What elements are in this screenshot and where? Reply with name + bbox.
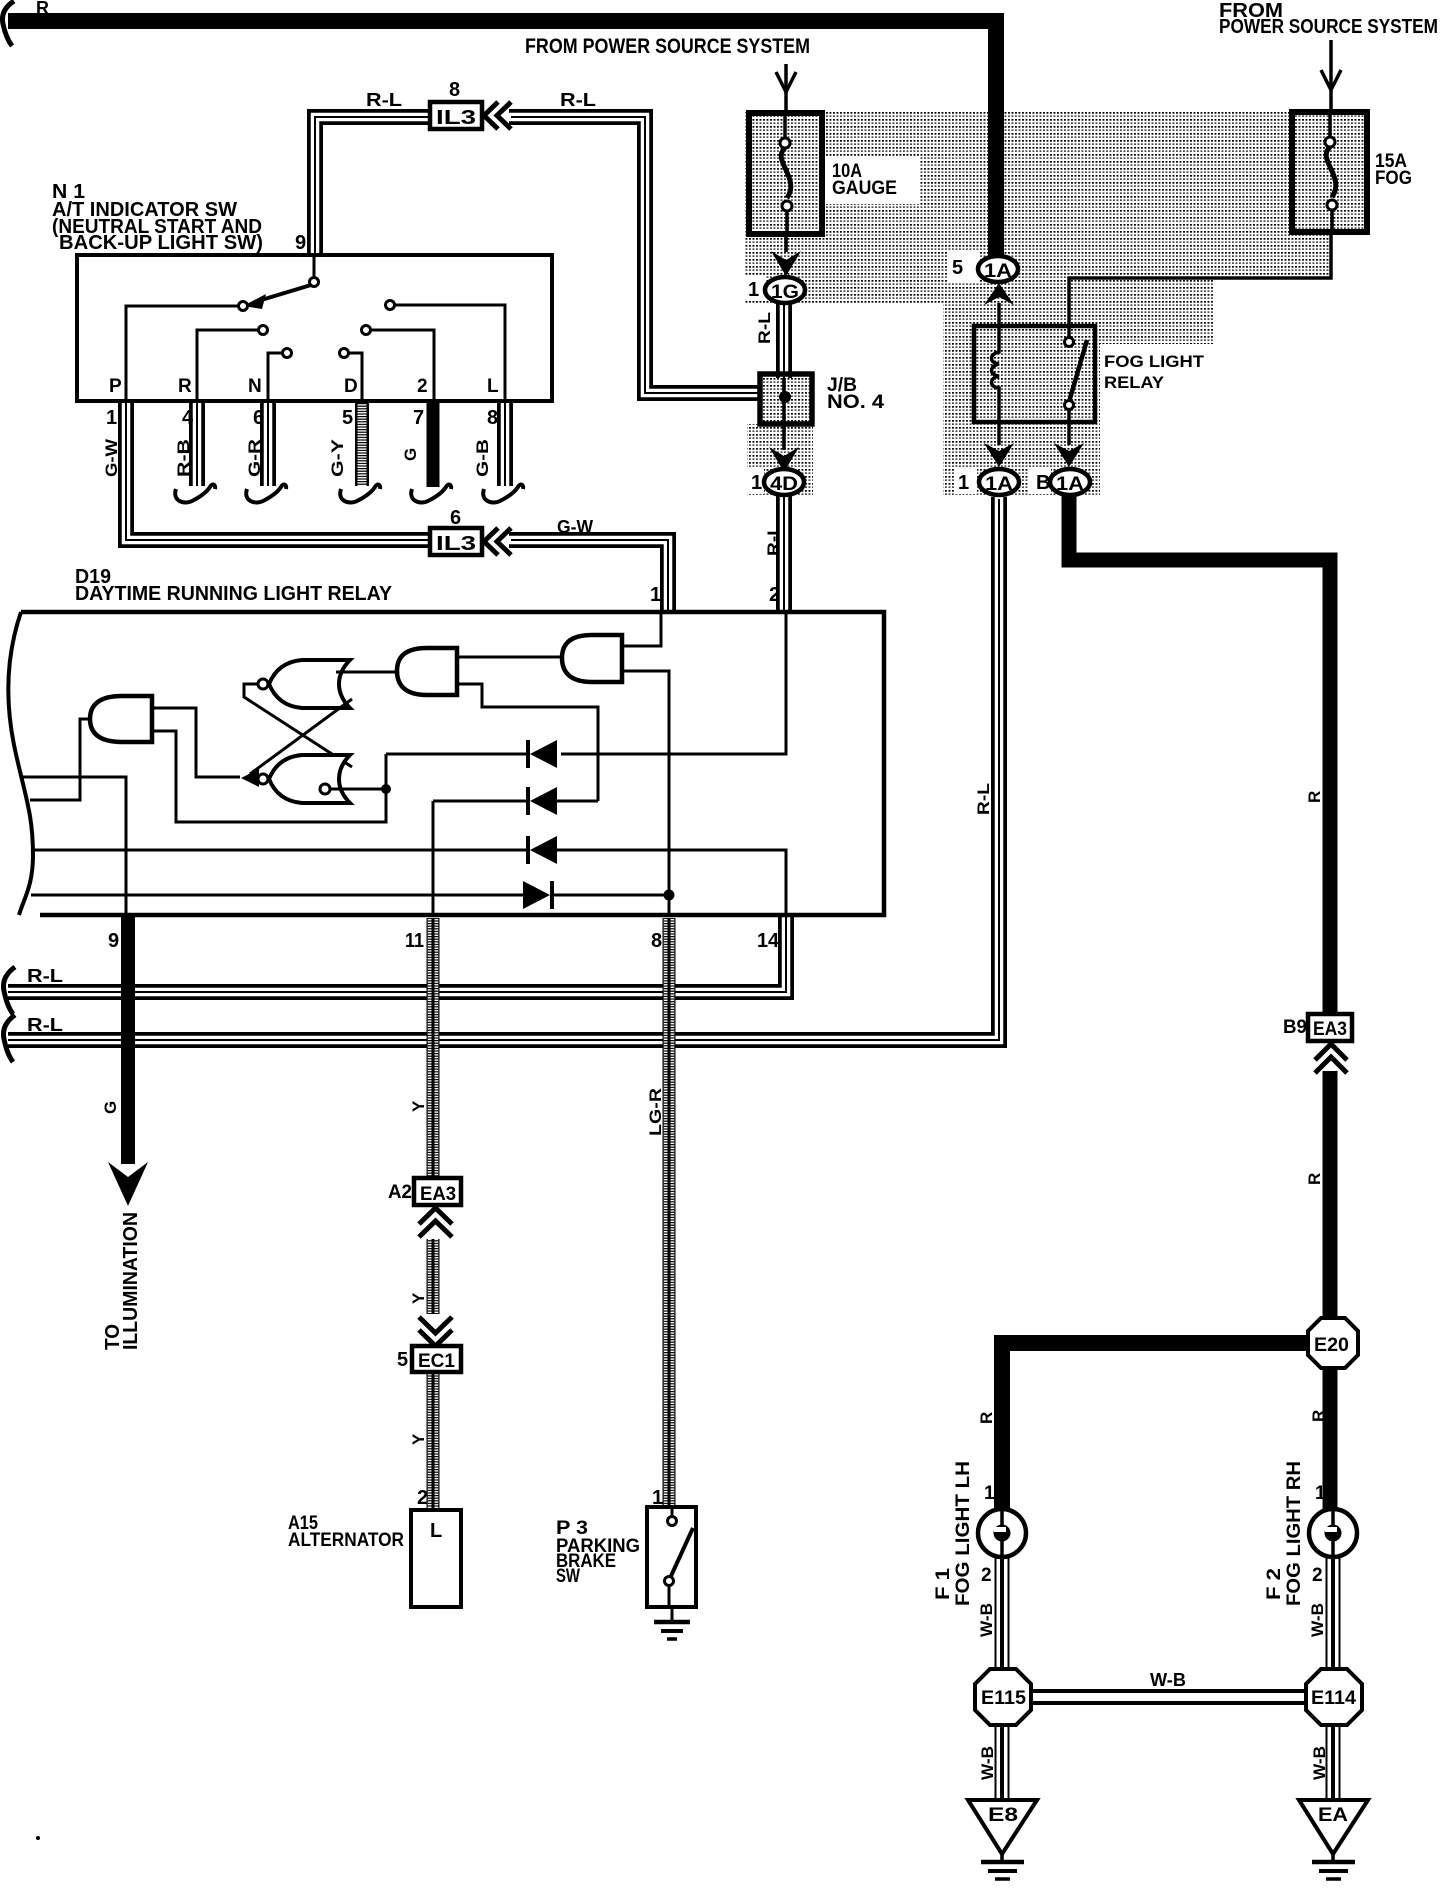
svg-text:8: 8 — [487, 407, 498, 429]
connector A2 EA3 — [414, 1178, 461, 1205]
svg-text:2: 2 — [981, 1565, 992, 1586]
svg-text:N: N — [248, 376, 262, 397]
fuse 15A FOG — [1292, 112, 1367, 232]
relay switch blade — [1069, 340, 1087, 402]
connector 5 EC1 — [412, 1346, 461, 1372]
A/T sw pivot — [310, 278, 319, 287]
svg-text:R-L: R-L — [366, 90, 402, 110]
wire diode row 3 from left edge — [33, 849, 526, 852]
arrow into 10A gauge fuse — [776, 64, 796, 113]
NOR-B tip bubble — [258, 774, 268, 784]
svg-text:LG-R: LG-R — [646, 1088, 665, 1136]
continuation bracket on R-L run 2 — [3, 1015, 15, 1062]
parking brake sw contact top — [671, 1509, 674, 1516]
svg-text:G-Y: G-Y — [328, 438, 347, 477]
gate NOR-T — [269, 660, 350, 708]
wire NOR-B cross-couple to NOR-T — [250, 699, 352, 774]
fog light RH bulb — [1309, 1509, 1357, 1557]
relay box FOG LIGHT RELAY — [974, 326, 1095, 422]
wire contact P to pin 1 — [126, 306, 238, 399]
svg-text:5: 5 — [342, 407, 353, 429]
ground triangle E8 — [968, 1800, 1037, 1854]
white patch behind connector label 1 (1A) — [955, 468, 977, 494]
junction connector E114 — [1306, 1669, 1362, 1725]
svg-text:G-B: G-B — [473, 439, 492, 477]
wire diode D4 to pin 8 junction — [552, 894, 669, 897]
wire W-B fog light LH to E115 — [995, 1556, 1010, 1669]
svg-text:L: L — [430, 1520, 442, 1542]
wire Y hatched D19 pin 11 to A2 EA3 — [427, 918, 440, 1178]
svg-text:L: L — [487, 376, 499, 397]
svg-text:G: G — [401, 448, 420, 461]
wire R-L from power source to IL3(8) via J/B No.4 — [509, 117, 761, 393]
chevrons up into A2 EA3 — [419, 1208, 452, 1237]
diode D1 — [528, 740, 557, 768]
diode D2 — [528, 787, 557, 815]
svg-text:P: P — [109, 376, 122, 397]
wire R-L connector 1G to J/B No.4 — [776, 302, 792, 378]
svg-text:W-B: W-B — [977, 1603, 996, 1637]
svg-text:W-B: W-B — [978, 1746, 997, 1780]
gate AND-R — [562, 635, 622, 682]
svg-text:R-B: R-B — [174, 439, 193, 477]
relay coil — [992, 330, 1000, 422]
A/T sw pin 9 lead — [313, 257, 316, 277]
wire 15A fuse to fog light relay contact — [1069, 232, 1331, 338]
connector IL3 pin 8 — [430, 102, 482, 129]
shaded power-feed region (left band) — [745, 112, 943, 304]
svg-text:FOG LIGHT: FOG LIGHT — [1104, 352, 1205, 371]
A/T sw contact P — [239, 302, 248, 311]
svg-text:RELAY: RELAY — [1104, 373, 1165, 392]
wire W-B E114 to ground EA — [1326, 1725, 1341, 1800]
svg-text:W-B: W-B — [1308, 1603, 1327, 1637]
arrow into connector 4D — [769, 447, 799, 472]
wire Y hatched EC1 to alternator pin 2 — [427, 1371, 440, 1510]
wire diode D1 to NOR-B output node — [386, 753, 526, 756]
parking brake sw contact bottom — [665, 1577, 674, 1586]
svg-text:R-L: R-L — [974, 783, 993, 815]
svg-text:R: R — [36, 0, 49, 18]
svg-text:R: R — [178, 376, 192, 397]
arrow up into connector 1A pin 5 — [984, 283, 1014, 305]
hook end wire pin 7 — [411, 485, 451, 503]
white patch behind connector label 1 (1G) — [743, 275, 765, 301]
wire G-B A/T sw pin 8 — [497, 401, 513, 486]
wire contact R to pin 4 — [197, 330, 258, 399]
svg-text:EA3: EA3 — [1313, 1019, 1347, 1040]
svg-text:G-W: G-W — [557, 517, 593, 537]
relay switch contact top — [1065, 338, 1074, 347]
wire NOR-T output cross-couple to NOR-B — [244, 684, 352, 767]
wire diode D2 to row 1 — [557, 800, 598, 803]
wire AND-R input top from pin 1 — [624, 612, 661, 646]
wire AND-L output to left edge — [30, 719, 90, 800]
chevrons down into EC1 — [419, 1317, 452, 1346]
wire relay to arrows below — [999, 409, 1069, 445]
D19 relay box outline — [21, 612, 884, 915]
svg-text:R: R — [1305, 1173, 1324, 1185]
chevrons up into B9 EA3 — [1315, 1044, 1347, 1073]
wire R thick power feed (top) — [8, 21, 996, 256]
svg-text:R-L: R-L — [27, 966, 63, 986]
wire G-W from A/T indicator sw pin 1 to IL3(6) — [126, 401, 431, 540]
connector 4D — [764, 469, 804, 495]
arrow into connector 1A pin B — [1054, 443, 1084, 467]
parking brake sw lead to ground — [669, 1586, 672, 1621]
wire G-W from IL3(6) to D19 pin 1 — [509, 540, 668, 612]
wire R thick E20 to fog light LH — [1002, 1343, 1306, 1510]
ground symbol EA — [1312, 1850, 1355, 1879]
svg-text:FOG LIGHT LH: FOG LIGHT LH — [953, 1461, 974, 1606]
svg-text:DAYTIME RUNNING LIGHT RELAY: DAYTIME RUNNING LIGHT RELAY — [75, 583, 393, 605]
svg-text:4D: 4D — [770, 474, 798, 495]
gate AND-L — [90, 696, 152, 742]
junction block J/B No.4 — [760, 374, 812, 424]
wire 1A pin5 to relay coil — [997, 303, 1001, 330]
A/T sw contact N — [283, 349, 292, 358]
svg-text:B9: B9 — [1283, 1017, 1307, 1038]
A/T indicator switch box N1 — [77, 255, 552, 401]
svg-text:1: 1 — [650, 584, 661, 606]
shaded patch around connector 4D — [747, 424, 813, 495]
svg-text:G-W: G-W — [102, 438, 121, 477]
wire NOR-B output to junction — [330, 788, 386, 791]
wire AND-L input bottom — [154, 731, 386, 822]
arrow G wire to illumination — [108, 1162, 148, 1206]
NOR-T output bubble — [258, 679, 268, 689]
svg-text:D: D — [344, 376, 358, 397]
svg-text:6: 6 — [450, 507, 461, 529]
ground symbol parking brake — [654, 1622, 690, 1639]
wire diode D3 to pin 14 — [557, 850, 786, 916]
wire R thick E20 to fog light RH — [1323, 1367, 1338, 1510]
svg-text:1: 1 — [751, 472, 762, 494]
wire AND-R input bottom to pin 8 — [624, 671, 669, 916]
wire LG-R hatched D19 pin 8 to parking brake sw — [663, 918, 676, 1507]
ground triangle EA — [1299, 1800, 1368, 1854]
connector 1A pin 1 — [979, 469, 1019, 495]
A/T sw contact R — [259, 326, 268, 335]
junction dot in J/B No.4 — [779, 391, 791, 403]
hook end wire pin 4 — [175, 485, 215, 503]
wire R thick B9 EA3 to junction E20 — [1323, 1071, 1338, 1319]
svg-text:2: 2 — [1312, 1565, 1323, 1586]
wire Y hatched EA3 to EC1 — [427, 1239, 440, 1314]
alternator A15 box — [411, 1510, 461, 1607]
wire below 10A fuse — [784, 234, 788, 252]
shaded region around fog light relay — [943, 278, 1100, 497]
wire R-L run from left edge to connector 1A pin 1 — [8, 497, 999, 1040]
wire G thick A/T sw pin 7 — [427, 401, 440, 487]
svg-text:7: 7 — [413, 407, 424, 429]
arrow into 15A fog fuse — [1321, 40, 1341, 112]
svg-text:GAUGE: GAUGE — [832, 178, 897, 199]
parking brake sw blade — [671, 1528, 693, 1576]
svg-text:14: 14 — [757, 930, 780, 952]
junction dot NOR-B output — [381, 784, 391, 794]
relay switch contact bottom — [1065, 401, 1074, 410]
wire thin through J/B No.4 to 4D arrow — [782, 378, 786, 450]
svg-text:E114: E114 — [1311, 1688, 1356, 1709]
shaded step right of relay — [1100, 278, 1213, 344]
shaded power-feed region (right band) — [943, 112, 1292, 278]
wire NOR-T input from AND-M — [336, 671, 397, 674]
gate NOR-B — [269, 755, 350, 803]
svg-text:2: 2 — [417, 1487, 428, 1509]
svg-text:G: G — [101, 1101, 120, 1114]
svg-text:1A: 1A — [984, 261, 1012, 282]
A/T sw contact L — [386, 301, 395, 310]
svg-text:EA3: EA3 — [420, 1184, 456, 1205]
svg-text:9: 9 — [108, 930, 119, 952]
svg-text:R-L: R-L — [764, 524, 783, 556]
svg-text:NO. 4: NO. 4 — [827, 392, 884, 413]
wire R-L from IL3(8) to A/T indicator sw pin 9 — [315, 117, 431, 258]
diode D4 — [523, 881, 552, 909]
svg-text:Y: Y — [409, 1433, 428, 1445]
arrow into connector 1G — [771, 251, 801, 276]
svg-text:R: R — [1305, 791, 1324, 803]
gate AND-M — [397, 648, 457, 695]
svg-text:Y: Y — [409, 1100, 428, 1112]
svg-text:IL3: IL3 — [436, 107, 476, 129]
svg-text:5: 5 — [952, 257, 963, 279]
svg-text:F 2: F 2 — [1264, 1568, 1285, 1600]
ground symbol E8 — [981, 1850, 1024, 1879]
wire AND-M input top from AND-R — [459, 656, 560, 659]
svg-text:R-L: R-L — [27, 1015, 63, 1035]
svg-text:2: 2 — [417, 376, 428, 397]
fog light LH bulb — [978, 1509, 1026, 1557]
connector 1G — [765, 277, 805, 303]
wire contact L to pin 8 — [395, 305, 505, 399]
svg-text:8: 8 — [651, 930, 662, 952]
hook end wire pin 5 — [340, 485, 380, 503]
wire R thick connector 1A pin B down right to B9 EA3 — [1069, 494, 1330, 1012]
wire contact N to pin 6 — [268, 353, 282, 399]
svg-text:A2: A2 — [388, 1182, 412, 1203]
wire R-B A/T sw pin 4 — [189, 401, 205, 486]
white patch behind 10A GAUGE label — [824, 156, 920, 204]
svg-text:1: 1 — [652, 1487, 663, 1509]
wire contact D to pin 5 — [349, 353, 362, 399]
svg-text:2: 2 — [769, 584, 780, 606]
connector B9 EA3 — [1308, 1014, 1352, 1041]
connector 1A pin B — [1050, 469, 1090, 495]
wire diode row 2 from pin 11 — [433, 800, 526, 803]
hook end wire pin 8 — [483, 485, 523, 503]
NOR-B output bubble — [320, 784, 330, 794]
svg-text:8: 8 — [449, 79, 460, 101]
svg-text:R: R — [977, 1412, 996, 1424]
stray dot bottom-left — [36, 1836, 40, 1840]
hook end wire pin 6 — [246, 485, 286, 503]
svg-text:5: 5 — [397, 1349, 408, 1371]
svg-text:FOG: FOG — [1375, 168, 1412, 189]
wire G-Y A/T sw pin 5 — [355, 401, 369, 486]
svg-text:9: 9 — [295, 232, 306, 254]
svg-text:EA: EA — [1318, 1805, 1348, 1826]
svg-text:BACK-UP LIGHT SW): BACK-UP LIGHT SW) — [59, 232, 263, 254]
chevrons into IL3 pin 8 — [484, 102, 511, 129]
svg-text:ILLUMINATION: ILLUMINATION — [120, 1212, 142, 1350]
svg-text:IL3: IL3 — [436, 533, 476, 555]
svg-text:1: 1 — [1315, 1483, 1326, 1504]
svg-text:1: 1 — [984, 1483, 995, 1504]
white patch behind connector label 1 (4D) — [744, 468, 764, 494]
svg-text:SW: SW — [556, 1566, 580, 1587]
svg-text:6: 6 — [253, 407, 264, 429]
svg-text:B: B — [1036, 472, 1050, 494]
wire W-B fog light RH to E114 — [1326, 1556, 1341, 1669]
white patch behind connector label 5 — [948, 250, 980, 282]
wire AND-M input bottom from diode row — [459, 684, 598, 801]
A/T sw blade with arrow — [258, 285, 311, 301]
wire R-L run from left edge to D19 pin 14 — [8, 914, 786, 992]
svg-text:4: 4 — [182, 407, 194, 429]
wire G thick D19 pin 9 to illumination arrow — [121, 916, 135, 1164]
wire AND-L input top from NOR-B — [154, 708, 240, 777]
svg-text:R: R — [1309, 1410, 1328, 1422]
svg-text:R-L: R-L — [755, 312, 774, 344]
arrow into connector 1A pin 1 — [984, 443, 1014, 467]
svg-text:1A: 1A — [985, 474, 1013, 495]
diode D3 — [528, 836, 557, 864]
parking brake sw P3 box — [647, 1507, 696, 1607]
svg-text:R-L: R-L — [560, 90, 596, 110]
connector IL3 pin 6 — [430, 528, 482, 555]
continuation bracket top-left on R wire — [2, 1, 14, 46]
svg-text:ALTERNATOR: ALTERNATOR — [288, 1530, 404, 1551]
svg-text:E8: E8 — [988, 1805, 1018, 1826]
svg-text:FOG LIGHT RH: FOG LIGHT RH — [1284, 1461, 1305, 1606]
wire D19 pin 9 internal — [21, 777, 126, 916]
svg-text:1: 1 — [106, 407, 117, 429]
svg-text:POWER SOURCE SYSTEM: POWER SOURCE SYSTEM — [1219, 16, 1438, 38]
svg-text:1: 1 — [748, 279, 759, 301]
wire contact 2 to pin 7 — [371, 330, 434, 399]
svg-text:W-B: W-B — [1150, 1670, 1186, 1690]
svg-text:G-R: G-R — [245, 439, 264, 477]
chevrons into IL3 pin 6 — [484, 528, 511, 555]
A/T sw contact D — [340, 349, 349, 358]
connector 1A pin 5 — [978, 256, 1018, 282]
junction dot on pin 8 line — [664, 890, 675, 901]
svg-text:EC1: EC1 — [418, 1351, 455, 1372]
svg-text:E115: E115 — [981, 1688, 1026, 1709]
A/T sw contact 2 — [362, 326, 371, 335]
junction connector E20 — [1308, 1318, 1358, 1368]
wire G-R A/T sw pin 6 — [260, 401, 276, 486]
svg-text:1: 1 — [958, 472, 969, 494]
svg-text:11: 11 — [405, 930, 424, 952]
svg-text:1G: 1G — [771, 282, 799, 303]
svg-text:W-B: W-B — [1310, 1746, 1329, 1780]
wire R-L connector 4D to D19 pin 2 — [776, 495, 792, 612]
wire D19 pin 2 internal to diode row 1 — [561, 612, 786, 754]
svg-text:E20: E20 — [1314, 1335, 1349, 1356]
svg-text:F 1: F 1 — [933, 1567, 954, 1600]
svg-text:1A: 1A — [1056, 474, 1084, 495]
wire D19 pin 11 internal — [432, 801, 435, 916]
wire W-B E115 to E114 — [1031, 1689, 1306, 1705]
junction connector E115 — [975, 1669, 1031, 1725]
svg-text:Y: Y — [409, 1292, 428, 1304]
arrowhead at NOR-B tip — [241, 769, 259, 787]
D19 torn left edge — [8, 612, 33, 915]
wire diode row 4 from left edge — [31, 894, 524, 897]
wire W-B E115 to ground E8 — [995, 1725, 1010, 1800]
svg-text:FROM POWER SOURCE SYSTEM: FROM POWER SOURCE SYSTEM — [525, 35, 810, 58]
white patch behind connector label B (1A) — [1029, 468, 1051, 494]
fuse 10A GAUGE — [749, 113, 822, 234]
continuation bracket on R-L run 1 — [3, 967, 15, 1014]
